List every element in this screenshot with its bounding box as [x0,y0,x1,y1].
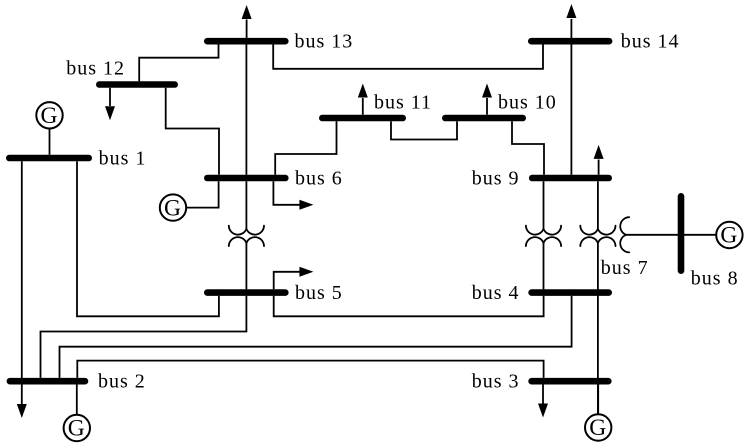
svg-text:bus 14: bus 14 [621,31,680,53]
svg-text:G: G [720,223,738,249]
svg-text:bus 2: bus 2 [98,371,146,393]
svg-text:G: G [41,103,59,129]
svg-text:bus 4: bus 4 [472,282,520,304]
svg-text:bus 1: bus 1 [99,148,147,170]
svg-text:bus 10: bus 10 [498,92,557,114]
svg-text:bus 3: bus 3 [472,371,520,393]
svg-text:bus 5: bus 5 [295,282,343,304]
svg-text:G: G [164,195,182,221]
svg-text:bus 9: bus 9 [472,168,520,190]
svg-text:G: G [589,415,607,441]
svg-text:bus 8: bus 8 [691,268,739,290]
svg-text:bus 12: bus 12 [66,57,125,79]
svg-text:bus 7: bus 7 [601,257,649,279]
svg-text:bus 6: bus 6 [295,168,343,190]
svg-text:bus 13: bus 13 [295,31,354,53]
svg-text:bus 11: bus 11 [374,92,432,114]
svg-text:G: G [68,416,86,442]
